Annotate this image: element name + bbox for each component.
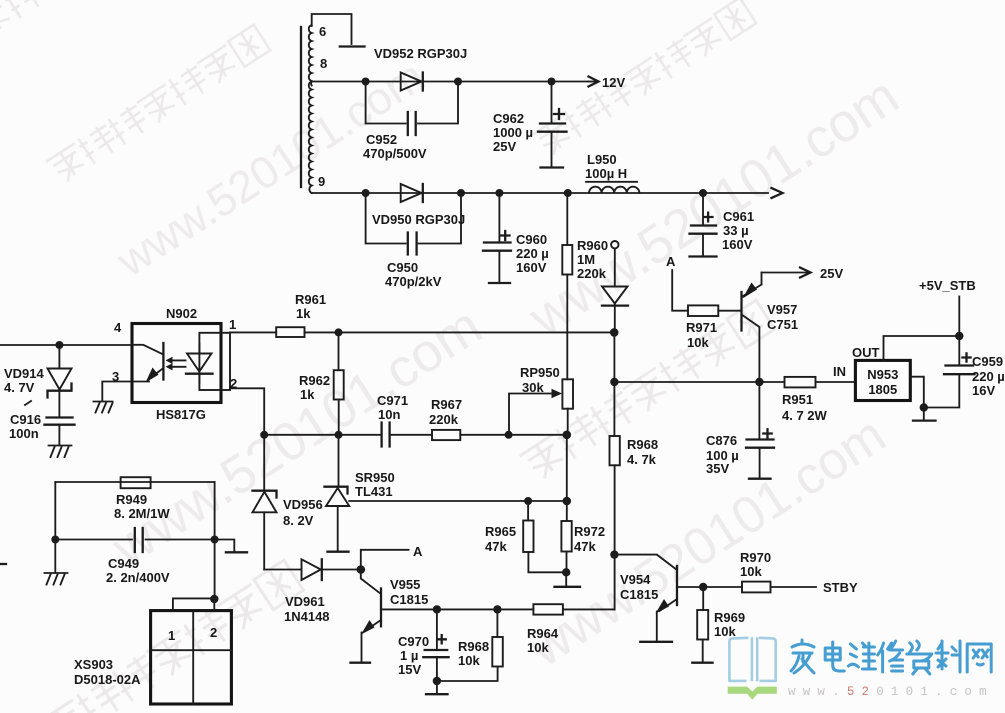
node dot [335,431,343,439]
node dot [55,341,63,349]
wire pin 9 rail [312,192,768,194]
svg-text:C1815: C1815 [390,592,428,607]
svg-text:C961: C961 [723,209,754,224]
ground left [45,540,68,585]
resistor R961 [230,292,326,337]
node dot [493,605,501,613]
svg-text:C962: C962 [493,111,524,126]
svg-text:C960: C960 [516,232,547,247]
chassis stub [215,540,247,553]
svg-text:1 µ: 1 µ [400,648,418,663]
svg-text:V954: V954 [620,572,651,587]
capacitor C962 [493,82,567,168]
svg-text:R968: R968 [627,437,658,452]
svg-text:1k: 1k [300,387,315,402]
node dot [610,550,618,558]
svg-text:L950: L950 [587,152,617,167]
zener VD914 [4,345,72,398]
diode at node B [602,248,628,332]
svg-text:1: 1 [168,628,175,643]
svg-text:4. 7 2W: 4. 7 2W [782,408,828,423]
svg-text:VD914: VD914 [4,366,45,381]
inductor L950 [585,152,639,193]
pin 6 wire and terminal [312,14,365,47]
wire N953 out to +5V node [884,336,960,360]
svg-text:A: A [413,544,423,559]
node dot [362,78,370,86]
wire V954 base line [677,586,742,588]
node dot [610,378,618,386]
output arrow right [772,188,783,198]
capacitor C961 [690,193,755,257]
resistor R949 [55,477,214,521]
svg-text:25V: 25V [493,139,516,154]
capacitor C876 [706,382,774,479]
svg-text:V957: V957 [767,302,797,317]
capacitor C916 [9,391,75,457]
ground under C970 [426,681,448,694]
zener VD956 [253,435,323,570]
svg-text:R960: R960 [577,238,608,253]
resistor R960 [562,193,608,379]
regulator N953 [833,345,910,401]
svg-text:SR950: SR950 [355,470,395,485]
svg-text:C876: C876 [706,433,737,448]
svg-text:100n: 100n [9,426,39,441]
transistor V957 [742,273,799,383]
svg-text:9: 9 [318,174,325,189]
svg-text:4. 7V: 4. 7V [4,380,35,395]
svg-text:N902: N902 [166,306,197,321]
svg-text:10k: 10k [687,335,709,350]
node dot [920,403,928,411]
wire R961 to node B diode [305,331,615,333]
svg-text:VD956: VD956 [283,497,323,512]
svg-text:R970: R970 [740,550,771,565]
node dot [260,431,268,439]
svg-text:1N4148: 1N4148 [284,609,330,624]
svg-text:33 µ: 33 µ [723,223,749,238]
resistor R970 [740,550,816,592]
node dot [433,605,441,613]
diode VD950 [372,184,465,227]
resistor R962 [299,332,344,434]
svg-text:C950: C950 [387,260,418,275]
capacitor C960 [483,193,549,283]
svg-text:STBY: STBY [823,580,858,595]
node dot [357,565,366,574]
svg-text:R969: R969 [714,610,745,625]
svg-text:C1815: C1815 [620,587,658,602]
svg-text:4: 4 [114,320,122,335]
resistor R965 [485,501,566,572]
svg-text:OUT: OUT [852,345,880,360]
node dot [433,677,441,685]
svg-text:R971: R971 [686,320,717,335]
opto-coupler N902 [112,306,237,422]
svg-text:R965: R965 [485,524,516,539]
svg-text:160V: 160V [722,237,753,252]
svg-text:16V: 16V [972,383,995,398]
resistor R968 4.7k [610,332,659,609]
svg-text:6: 6 [319,24,326,39]
resistor R968 10k [437,609,503,681]
svg-text:XS903: XS903 [74,657,113,672]
svg-text:C952: C952 [366,132,397,147]
svg-text:220 µ: 220 µ [516,246,549,261]
svg-text:1M: 1M [577,252,595,267]
pin 3 ground [94,382,133,413]
+5V_STB label [919,278,976,336]
svg-text:VD952 RGP30J: VD952 RGP30J [374,46,467,61]
svg-text:15V: 15V [398,662,421,677]
svg-text:R962: R962 [299,373,330,388]
svg-text:1805: 1805 [868,382,897,397]
svg-text:160V: 160V [516,260,547,275]
svg-text:RP950: RP950 [520,365,560,380]
svg-text:TL431: TL431 [355,484,393,499]
wire TL431 ref line [349,500,567,502]
transistor V955 [351,570,429,663]
wire regulator input line [614,381,784,383]
svg-text:25V: 25V [820,266,843,281]
node dot [457,189,465,197]
25V output arrow [762,266,844,281]
svg-text:10k: 10k [714,624,736,639]
wire 12V rail [312,81,588,83]
svg-text:www.520101.com: www.520101.com [101,296,492,579]
node dot [699,189,707,197]
node dot [562,568,570,576]
svg-text:10n: 10n [378,407,400,422]
svg-text:220k: 220k [577,266,607,281]
wire left input to pin 4 [0,344,132,346]
node dot [505,431,513,439]
node dot [563,431,572,440]
svg-text:35V: 35V [706,461,729,476]
node dot [563,497,572,506]
svg-text:C751: C751 [767,317,798,332]
diode VD961 [264,559,361,624]
svg-text:470p/2kV: 470p/2kV [385,274,442,289]
svg-text:220k: 220k [429,412,459,427]
node dot [335,328,343,336]
ground under R972 [555,572,581,587]
node dot [699,583,707,591]
svg-text:100µ H: 100µ H [585,166,627,181]
resistor R964 [527,604,615,655]
left edge dash [0,563,6,565]
shunt regulator SR950 TL431 [325,435,395,552]
node dot [564,189,572,197]
resistor R967 [429,397,462,440]
svg-text:www.520101.com: www.520101.com [788,685,994,699]
svg-text:N953: N953 [867,367,898,382]
transistor V954 [614,555,677,642]
resistor R951 [782,377,855,423]
svg-text:8. 2V: 8. 2V [283,513,314,528]
svg-text:8. 2M/1W: 8. 2M/1W [114,506,170,521]
svg-text:470p/500V: 470p/500V [363,146,427,161]
resistor R971 [686,305,742,350]
svg-text:R968: R968 [458,639,489,654]
svg-text:VD961: VD961 [285,594,325,609]
transformer T winding [301,25,312,193]
svg-text:HS817G: HS817G [156,407,206,422]
node dot [362,189,370,197]
node A lower stub [361,544,423,570]
capacitor C949 [55,482,214,599]
capacitor C959 [924,336,1005,408]
open terminal circle [611,241,618,248]
svg-text:R967: R967 [431,397,462,412]
wire divider to ref [566,435,568,501]
node A upper [666,254,688,311]
node dot [548,78,556,86]
svg-text:A: A [666,254,676,269]
node dot [210,595,218,603]
svg-text:1000 µ: 1000 µ [493,125,533,140]
wire N902 pin2 down [230,388,264,435]
node dot [211,536,219,544]
svg-text:C916: C916 [10,412,41,427]
12V output arrow [588,75,625,90]
svg-text:V955: V955 [390,577,420,592]
diode VD952 [374,46,467,91]
node dot [755,378,763,386]
svg-text:C970: C970 [398,634,429,649]
svg-text:10k: 10k [740,564,762,579]
svg-text:D5018-02A: D5018-02A [74,672,141,687]
svg-text:4. 7k: 4. 7k [627,452,657,467]
svg-text:1: 1 [229,317,236,332]
svg-text:2: 2 [210,625,217,640]
svg-text:www.520101.com: www.520101.com [107,50,434,287]
svg-text:VD950 RGP30J: VD950 RGP30J [372,212,465,227]
capacitor C970 [398,609,449,681]
svg-text:C959: C959 [972,354,1003,369]
svg-text:10k: 10k [527,640,549,655]
svg-text:47k: 47k [574,539,596,554]
node dot [51,536,59,544]
wire feedback line [264,434,567,436]
potentiometer RP950 [509,365,573,435]
svg-text:R972: R972 [574,524,605,539]
resistor R972 [561,501,605,572]
svg-text:+5V_STB: +5V_STB [919,278,976,293]
capacitor C950 [366,193,461,289]
connector XS903 [74,598,231,704]
svg-text:R951: R951 [782,392,813,407]
svg-text:R961: R961 [295,292,326,307]
svg-text:8: 8 [320,56,327,71]
resistor R969 [692,587,745,663]
svg-text:R964: R964 [527,626,559,641]
svg-text:C971: C971 [377,393,408,408]
node dot [955,332,963,340]
N953 gnd pin [910,377,935,421]
node dot [495,189,503,197]
node dot [454,78,462,86]
wire V955 base line [381,608,533,610]
svg-text:30k: 30k [522,380,544,395]
svg-text:R949: R949 [116,492,147,507]
node dot [610,328,619,337]
svg-text:2. 2n/400V: 2. 2n/400V [106,570,170,585]
svg-text:12V: 12V [602,75,625,90]
svg-text:C949: C949 [108,556,139,571]
capacitor C952 [363,82,458,162]
svg-text:47k: 47k [485,539,507,554]
svg-text:10k: 10k [458,653,480,668]
svg-text:220 µ: 220 µ [972,369,1005,384]
svg-text:IN: IN [833,364,846,379]
svg-text:1k: 1k [296,306,311,321]
node dot [524,497,532,505]
capacitor C971 [377,393,408,447]
